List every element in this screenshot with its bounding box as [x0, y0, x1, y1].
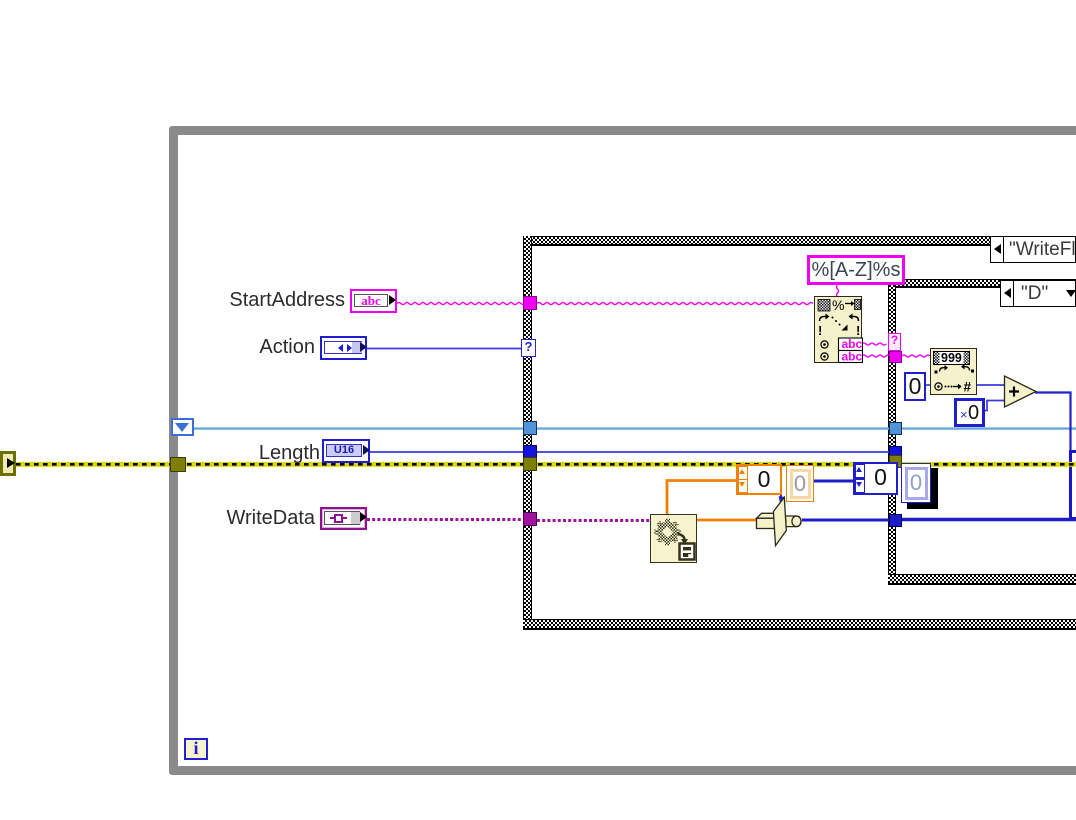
svg-text:%: %: [832, 297, 844, 313]
svg-text:!: !: [818, 323, 822, 338]
svg-text:!: !: [856, 323, 860, 338]
svg-text:#: #: [964, 380, 972, 395]
svg-text:abc: abc: [842, 350, 863, 364]
svg-text:999: 999: [941, 351, 962, 365]
